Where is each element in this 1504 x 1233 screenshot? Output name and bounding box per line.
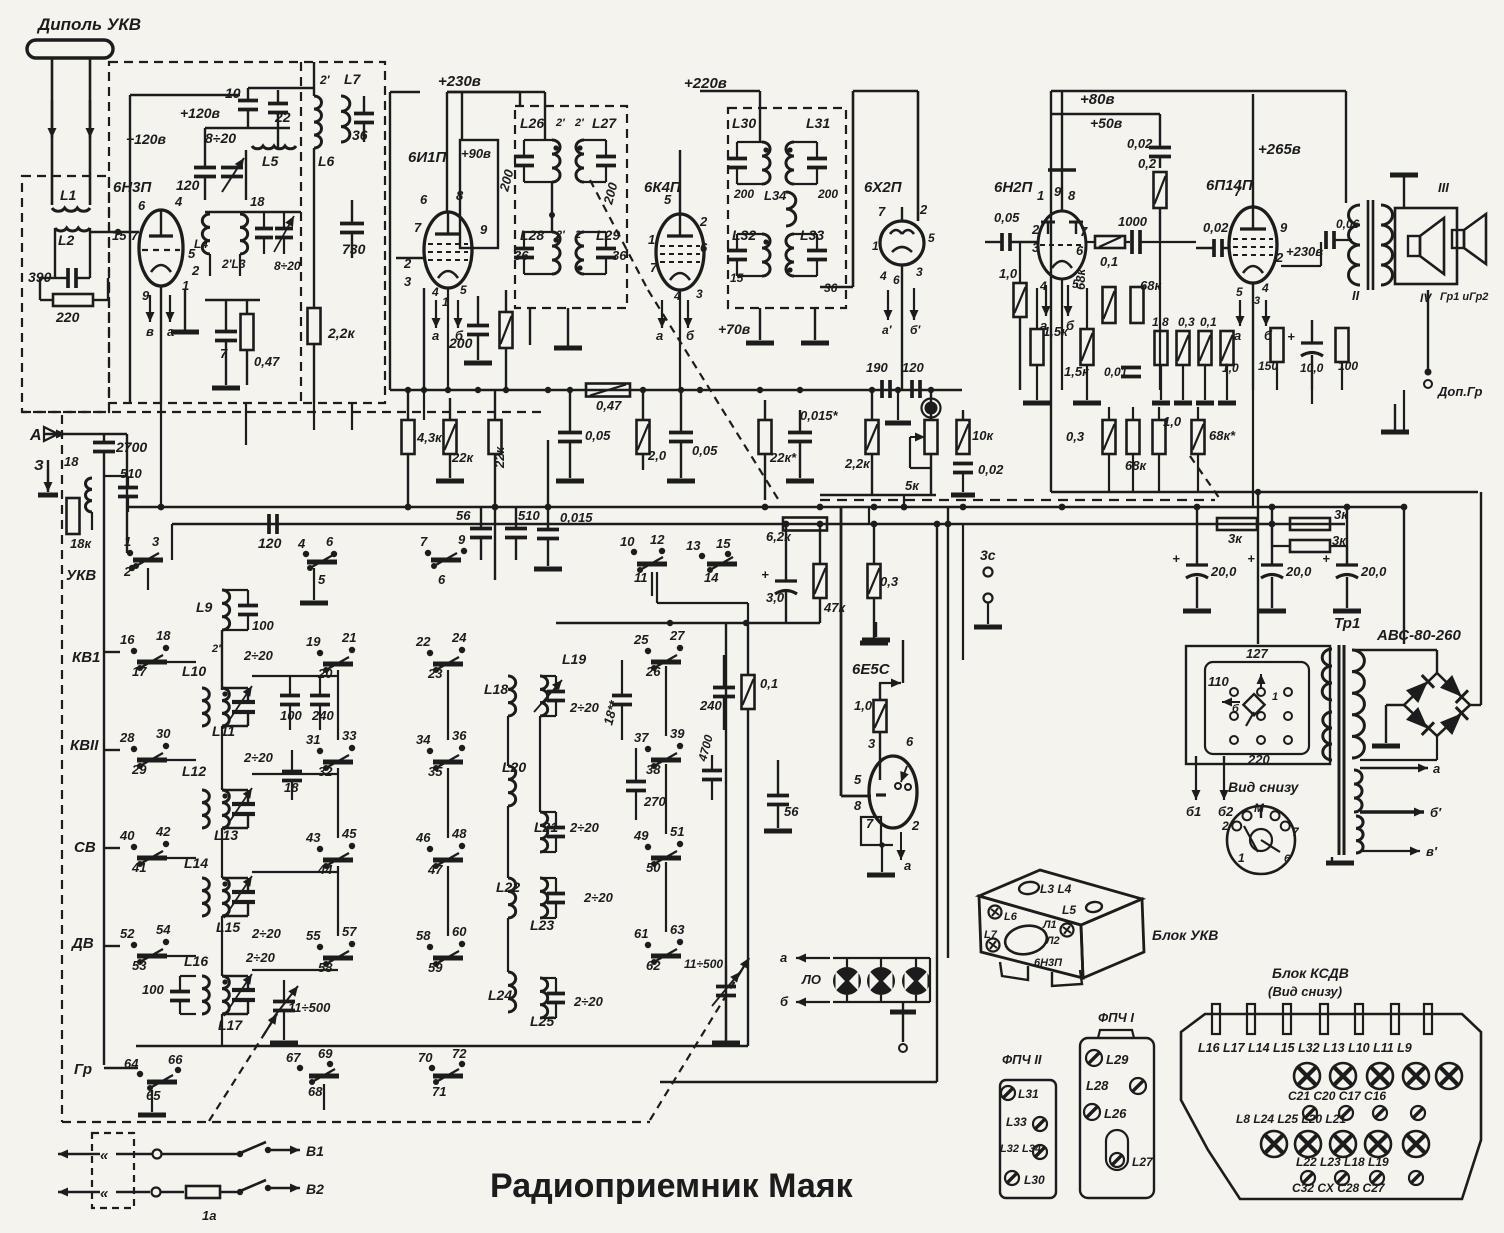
svg-text:6: 6	[438, 572, 446, 587]
svg-text:L8 L24 L25 L20 L21: L8 L24 L25 L20 L21	[1236, 1112, 1346, 1126]
svg-text:б2: б2	[1218, 804, 1234, 819]
svg-text:7: 7	[878, 204, 886, 219]
svg-text:10,0: 10,0	[1300, 361, 1324, 375]
svg-text:8: 8	[1068, 188, 1076, 203]
svg-text:44: 44	[317, 862, 333, 877]
svg-text:5: 5	[460, 283, 467, 297]
svg-text:ФПЧ II: ФПЧ II	[1002, 1052, 1042, 1067]
svg-text:3: 3	[868, 736, 876, 751]
svg-text:L28: L28	[1086, 1078, 1109, 1093]
svg-text:8: 8	[854, 798, 862, 813]
svg-text:0,06: 0,06	[1336, 217, 1360, 231]
svg-text:3: 3	[696, 287, 703, 301]
svg-text:5: 5	[318, 572, 326, 587]
svg-text:б1: б1	[1186, 804, 1201, 819]
svg-text:б: б	[686, 328, 695, 343]
svg-text:29: 29	[131, 762, 147, 777]
svg-text:12: 12	[650, 532, 665, 547]
svg-text:9: 9	[1280, 220, 1288, 235]
svg-text:20,0: 20,0	[1360, 564, 1387, 579]
svg-text:2'L3: 2'L3	[221, 257, 246, 271]
svg-text:6Е5С: 6Е5С	[852, 661, 891, 678]
svg-text:18к: 18к	[70, 536, 92, 551]
svg-text:24: 24	[451, 630, 467, 645]
svg-text:0,015: 0,015	[560, 510, 593, 525]
svg-text:510: 510	[518, 508, 540, 523]
svg-text:3: 3	[152, 534, 160, 549]
svg-text:III: III	[1438, 180, 1449, 195]
svg-text:2: 2	[919, 202, 928, 217]
svg-text:15: 15	[730, 271, 744, 285]
svg-text:+70в: +70в	[718, 321, 751, 337]
svg-text:2÷20: 2÷20	[251, 926, 282, 941]
svg-text:З: З	[34, 457, 44, 474]
svg-text:54: 54	[156, 922, 171, 937]
svg-text:22к*: 22к*	[769, 450, 797, 465]
svg-text:+120в: +120в	[126, 131, 167, 147]
svg-text:5: 5	[854, 772, 862, 787]
svg-text:АВС-80-260: АВС-80-260	[1376, 627, 1461, 644]
svg-text:L23: L23	[530, 917, 554, 933]
svg-text:100: 100	[252, 618, 274, 633]
svg-text:220: 220	[1247, 752, 1270, 767]
svg-text:59: 59	[428, 960, 443, 975]
svg-text:68к: 68к	[1125, 458, 1147, 473]
svg-text:+90в: +90в	[461, 146, 491, 161]
svg-text:1: 1	[648, 232, 655, 247]
svg-text:L18: L18	[484, 681, 508, 697]
svg-text:2′: 2′	[211, 643, 222, 655]
svg-text:6: 6	[1284, 853, 1291, 865]
svg-text:51: 51	[670, 824, 684, 839]
svg-text:40: 40	[119, 828, 135, 843]
svg-text:58: 58	[318, 960, 333, 975]
svg-text:5: 5	[664, 192, 672, 207]
svg-text:730: 730	[342, 241, 366, 257]
svg-text:+: +	[1247, 551, 1255, 566]
svg-text:б: б	[1232, 703, 1240, 715]
svg-text:L16 L17 L14 L15 L32 L13 L10: L16 L17 L14 L15 L32 L13 L10 L11 L9	[1198, 1041, 1412, 1055]
svg-text:7: 7	[131, 228, 139, 243]
svg-text:26: 26	[645, 664, 661, 679]
svg-text:+230в: +230в	[438, 73, 481, 90]
svg-text:6,2к: 6,2к	[766, 529, 792, 544]
svg-text:2: 2	[191, 263, 200, 278]
svg-text:0,05: 0,05	[692, 443, 718, 458]
svg-text:Тр1: Тр1	[1334, 615, 1360, 632]
svg-text:3,0: 3,0	[766, 590, 785, 605]
svg-text:Диполь УКВ: Диполь УКВ	[36, 15, 141, 34]
svg-text:С21 С20 С17 С: С21 С20 С17 С16	[1288, 1089, 1386, 1103]
svg-text:0,3: 0,3	[1066, 429, 1085, 444]
svg-text:6: 6	[420, 192, 428, 207]
svg-text:43: 43	[305, 830, 321, 845]
svg-text:+220в: +220в	[684, 75, 727, 92]
svg-text:L15: L15	[216, 919, 240, 935]
svg-text:L27: L27	[1132, 1155, 1154, 1169]
svg-text:2÷20: 2÷20	[243, 750, 274, 765]
svg-text:5к: 5к	[905, 478, 920, 493]
svg-text:48: 48	[451, 826, 467, 841]
svg-text:IV: IV	[1420, 291, 1432, 305]
svg-text:6: 6	[906, 734, 914, 749]
svg-text:КВII: КВII	[70, 737, 99, 754]
svg-text:L26: L26	[1104, 1106, 1127, 1121]
svg-text:L5: L5	[262, 153, 279, 169]
svg-text:34: 34	[416, 732, 431, 747]
svg-text:L2: L2	[58, 232, 75, 248]
svg-text:240: 240	[699, 698, 722, 713]
svg-text:а: а	[1234, 328, 1241, 343]
svg-text:53: 53	[132, 958, 147, 973]
svg-text:+120в: +120в	[180, 105, 221, 121]
svg-text:С32 СХ С28 С27: С32 СХ С28 С27	[1292, 1181, 1386, 1195]
svg-text:2: 2	[699, 214, 708, 229]
svg-text:16: 16	[120, 632, 135, 647]
svg-text:б′: б′	[1430, 805, 1442, 820]
svg-text:а: а	[904, 858, 911, 873]
svg-text:1: 1	[1037, 188, 1044, 203]
svg-text:0,1: 0,1	[1100, 254, 1118, 269]
svg-text:0,1: 0,1	[1200, 315, 1217, 329]
svg-text:L11: L11	[212, 723, 235, 739]
svg-text:2′: 2′	[574, 117, 585, 129]
svg-text:(Вид снизу): (Вид снизу)	[1268, 984, 1342, 999]
svg-text:2′: 2′	[319, 73, 331, 87]
svg-text:А: А	[29, 427, 42, 444]
svg-text:+50в: +50в	[1090, 115, 1123, 131]
svg-text:5: 5	[1236, 285, 1243, 299]
svg-text:100: 100	[280, 708, 302, 723]
svg-text:+: +	[1287, 329, 1295, 344]
svg-text:1: 1	[1272, 691, 1278, 703]
svg-text:1: 1	[124, 534, 131, 549]
svg-text:2,2к: 2,2к	[327, 325, 355, 341]
svg-text:3с: 3с	[980, 547, 996, 563]
svg-text:2,0: 2,0	[647, 448, 667, 463]
svg-text:36: 36	[352, 127, 368, 143]
svg-text:М: М	[1254, 801, 1265, 815]
svg-text:2÷20: 2÷20	[583, 890, 614, 905]
svg-text:В2: В2	[306, 1181, 324, 1197]
svg-text:110: 110	[1208, 674, 1229, 689]
svg-text:20,0: 20,0	[1210, 564, 1237, 579]
svg-text:7: 7	[1080, 224, 1088, 239]
svg-text:0,02: 0,02	[1203, 220, 1229, 235]
svg-text:0,3: 0,3	[880, 574, 899, 589]
svg-text:1: 1	[872, 239, 879, 253]
svg-text:38: 38	[646, 762, 661, 777]
svg-text:+80в: +80в	[1080, 91, 1115, 108]
svg-text:6: 6	[1076, 243, 1084, 258]
svg-text:60: 60	[452, 924, 467, 939]
svg-text:56: 56	[784, 804, 799, 819]
svg-text:8÷20: 8÷20	[274, 259, 301, 273]
svg-text:14: 14	[704, 570, 719, 585]
svg-text:L3 L4: L3 L4	[1040, 882, 1072, 896]
svg-text:9: 9	[1054, 184, 1062, 199]
svg-text:150: 150	[1258, 359, 1278, 373]
svg-text:6Н3П: 6Н3П	[113, 179, 153, 196]
svg-text:L6: L6	[318, 153, 335, 169]
svg-text:L31: L31	[1018, 1087, 1039, 1101]
svg-text:120: 120	[902, 360, 924, 375]
svg-text:1,0: 1,0	[1163, 414, 1182, 429]
svg-text:L12: L12	[182, 763, 206, 779]
svg-text:9: 9	[458, 532, 466, 547]
svg-text:100: 100	[142, 982, 164, 997]
svg-text:0,05: 0,05	[994, 210, 1020, 225]
svg-text:58: 58	[416, 928, 431, 943]
svg-text:33: 33	[342, 728, 357, 743]
svg-text:13: 13	[686, 538, 701, 553]
svg-text:66: 66	[168, 1052, 183, 1067]
svg-text:L22 L23 L18 L19: L22 L23 L18 L19	[1296, 1155, 1389, 1169]
svg-text:L13: L13	[214, 827, 238, 843]
svg-text:2: 2	[1275, 250, 1284, 265]
svg-text:ЛО: ЛО	[801, 972, 821, 987]
svg-text:2÷20: 2÷20	[245, 950, 276, 965]
svg-text:120: 120	[176, 177, 200, 193]
svg-text:7: 7	[1234, 184, 1242, 199]
svg-text:50: 50	[646, 860, 661, 875]
svg-text:2: 2	[1221, 819, 1229, 833]
svg-text:47: 47	[427, 862, 443, 877]
svg-text:УКВ: УКВ	[66, 567, 96, 584]
svg-text:200: 200	[448, 335, 473, 351]
svg-text:1,5к: 1,5к	[1043, 324, 1069, 339]
svg-text:27: 27	[669, 628, 685, 643]
svg-text:32: 32	[318, 764, 333, 779]
svg-text:4: 4	[1261, 281, 1269, 295]
svg-text:1,0: 1,0	[1222, 361, 1239, 375]
svg-text:21: 21	[341, 630, 356, 645]
svg-text:49: 49	[633, 828, 649, 843]
svg-text:68к*: 68к*	[1209, 428, 1236, 443]
svg-text:0,015*: 0,015*	[800, 408, 839, 423]
svg-text:63: 63	[670, 922, 685, 937]
svg-text:L7: L7	[984, 929, 998, 941]
svg-text:37: 37	[634, 730, 649, 745]
svg-text:L24: L24	[488, 987, 512, 1003]
svg-text:3к: 3к	[1228, 531, 1243, 546]
svg-text:55: 55	[306, 928, 321, 943]
svg-text:а: а	[432, 328, 439, 343]
svg-text:L10: L10	[182, 663, 206, 679]
svg-text:6П14П: 6П14П	[1206, 177, 1254, 194]
svg-text:L30: L30	[1024, 1173, 1045, 1187]
svg-text:Л1: Л1	[1042, 919, 1057, 931]
svg-text:а: а	[1433, 761, 1440, 776]
svg-text:6: 6	[700, 240, 708, 255]
svg-text:200: 200	[733, 187, 754, 201]
svg-text:28: 28	[119, 730, 135, 745]
svg-text:20: 20	[317, 666, 333, 681]
svg-text:200: 200	[817, 187, 838, 201]
svg-text:6К4П: 6К4П	[644, 179, 682, 196]
svg-text:0,01: 0,01	[1104, 365, 1128, 379]
svg-text:6Н2П: 6Н2П	[994, 179, 1034, 196]
svg-text:41: 41	[131, 860, 146, 875]
svg-text:КВ1: КВ1	[72, 649, 100, 666]
svg-text:+230в: +230в	[1286, 244, 1323, 259]
svg-text:9: 9	[142, 288, 150, 303]
svg-text:Гр1 иГр2: Гр1 иГр2	[1440, 291, 1488, 303]
svg-text:II: II	[1352, 288, 1360, 303]
svg-text:L31: L31	[806, 115, 830, 131]
svg-text:1,0: 1,0	[854, 698, 873, 713]
svg-text:L1: L1	[60, 187, 77, 203]
svg-text:22: 22	[415, 634, 431, 649]
svg-text:Доп.Гр: Доп.Гр	[1437, 384, 1483, 399]
svg-text:42: 42	[155, 824, 171, 839]
svg-text:18: 18	[64, 454, 79, 469]
svg-text:Гр: Гр	[74, 1061, 92, 1078]
svg-text:L7: L7	[344, 71, 362, 87]
svg-text:Радиоприемник Маяк: Радиоприемник Маяк	[490, 1167, 854, 1205]
svg-text:в′: в′	[1426, 844, 1438, 859]
svg-text:Вид снизу: Вид снизу	[1228, 779, 1300, 795]
svg-text:L19: L19	[562, 651, 586, 667]
svg-text:В1: В1	[306, 1143, 324, 1159]
svg-text:20,0: 20,0	[1285, 564, 1312, 579]
svg-text:СВ: СВ	[74, 839, 96, 856]
svg-text:5: 5	[928, 231, 935, 245]
svg-text:Л2: Л2	[1045, 935, 1060, 947]
svg-text:9: 9	[480, 222, 488, 237]
svg-text:6: 6	[893, 273, 900, 287]
svg-text:2: 2	[911, 818, 920, 833]
svg-text:45: 45	[341, 826, 357, 841]
svg-text:18: 18	[250, 194, 265, 209]
svg-text:1000: 1000	[1118, 214, 1148, 229]
svg-text:18: 18	[156, 628, 171, 643]
svg-text:«: «	[100, 1147, 109, 1164]
svg-text:1: 1	[1238, 851, 1245, 865]
svg-text:4: 4	[297, 536, 306, 551]
svg-text:240: 240	[311, 708, 334, 723]
svg-text:б′: б′	[910, 323, 921, 337]
svg-text:2: 2	[1031, 222, 1040, 237]
svg-text:L26: L26	[520, 115, 544, 131]
svg-text:0,47: 0,47	[254, 354, 280, 369]
svg-text:2÷20: 2÷20	[573, 994, 604, 1009]
svg-text:57: 57	[342, 924, 357, 939]
svg-text:25: 25	[633, 632, 649, 647]
svg-text:0,05: 0,05	[585, 428, 611, 443]
svg-text:47к: 47к	[823, 600, 846, 615]
svg-text:6Н3П: 6Н3П	[1034, 957, 1063, 969]
svg-text:1а: 1а	[202, 1208, 216, 1223]
svg-text:10к: 10к	[972, 428, 994, 443]
svg-text:71: 71	[432, 1084, 446, 1099]
svg-text:11: 11	[634, 570, 648, 585]
svg-text:7: 7	[420, 534, 428, 549]
svg-text:36: 36	[612, 248, 627, 263]
svg-text:120: 120	[258, 535, 282, 551]
svg-text:L6: L6	[1004, 911, 1018, 923]
svg-text:3: 3	[916, 265, 923, 279]
svg-text:510: 510	[120, 466, 142, 481]
svg-text:L9: L9	[196, 599, 213, 615]
svg-text:68: 68	[308, 1084, 323, 1099]
svg-text:+: +	[761, 567, 769, 582]
svg-text:Блок КСДВ: Блок КСДВ	[1272, 965, 1349, 981]
svg-text:11÷500: 11÷500	[684, 957, 723, 971]
svg-text:б: б	[780, 994, 789, 1009]
svg-text:L5: L5	[1062, 903, 1076, 917]
svg-text:69: 69	[318, 1046, 333, 1061]
svg-text:65: 65	[146, 1088, 161, 1103]
svg-text:22к: 22к	[451, 450, 474, 465]
svg-text:17: 17	[132, 664, 147, 679]
svg-text:39: 39	[670, 726, 685, 741]
svg-text:68к: 68к	[1073, 268, 1088, 290]
svg-text:0,47: 0,47	[596, 398, 622, 413]
svg-text:7: 7	[414, 220, 422, 235]
svg-text:72: 72	[452, 1046, 467, 1061]
svg-text:2,2к: 2,2к	[844, 456, 871, 471]
svg-text:в: в	[146, 324, 154, 339]
svg-text:0,2: 0,2	[1138, 156, 1157, 171]
svg-text:7: 7	[650, 260, 658, 275]
svg-text:Блок УКВ: Блок УКВ	[1152, 927, 1218, 943]
svg-text:6: 6	[138, 198, 146, 213]
svg-text:7: 7	[866, 816, 874, 831]
svg-text:3: 3	[1254, 295, 1260, 307]
svg-text:ФПЧ I: ФПЧ I	[1098, 1010, 1134, 1025]
svg-text:30: 30	[156, 726, 171, 741]
svg-text:36: 36	[514, 248, 529, 263]
svg-text:56: 56	[456, 508, 471, 523]
svg-text:15: 15	[716, 536, 731, 551]
svg-text:4: 4	[879, 269, 887, 283]
svg-text:220: 220	[55, 309, 80, 325]
svg-text:52: 52	[120, 926, 135, 941]
svg-text:а′: а′	[882, 323, 893, 337]
svg-text:10: 10	[225, 85, 241, 101]
svg-text:L27: L27	[592, 115, 617, 131]
svg-text:62: 62	[646, 958, 661, 973]
svg-text:0,02: 0,02	[978, 462, 1004, 477]
svg-text:+: +	[1172, 551, 1180, 566]
svg-text:6И1П: 6И1П	[408, 149, 447, 166]
svg-text:70: 70	[418, 1050, 433, 1065]
svg-text:4,3к: 4,3к	[416, 430, 443, 445]
svg-text:2700: 2700	[115, 439, 147, 455]
svg-text:2÷20: 2÷20	[569, 700, 600, 715]
svg-text:127: 127	[1246, 646, 1268, 661]
svg-text:L30: L30	[732, 115, 756, 131]
svg-text:46: 46	[415, 830, 431, 845]
svg-text:L25: L25	[530, 1013, 554, 1029]
svg-text:10: 10	[620, 534, 635, 549]
svg-text:а: а	[780, 950, 787, 965]
svg-text:ДВ: ДВ	[70, 935, 94, 952]
svg-text:19: 19	[306, 634, 321, 649]
svg-text:2÷20: 2÷20	[243, 648, 274, 663]
svg-text:67: 67	[286, 1050, 301, 1065]
svg-text:L29: L29	[1106, 1052, 1129, 1067]
svg-text:2′: 2′	[555, 117, 566, 129]
svg-text:«: «	[100, 1185, 109, 1202]
svg-text:23: 23	[427, 666, 443, 681]
svg-text:+265в: +265в	[1258, 141, 1301, 158]
svg-text:L33: L33	[1006, 1115, 1027, 1129]
svg-text:61: 61	[634, 926, 648, 941]
svg-text:L34: L34	[764, 188, 787, 203]
svg-text:4: 4	[431, 285, 439, 299]
